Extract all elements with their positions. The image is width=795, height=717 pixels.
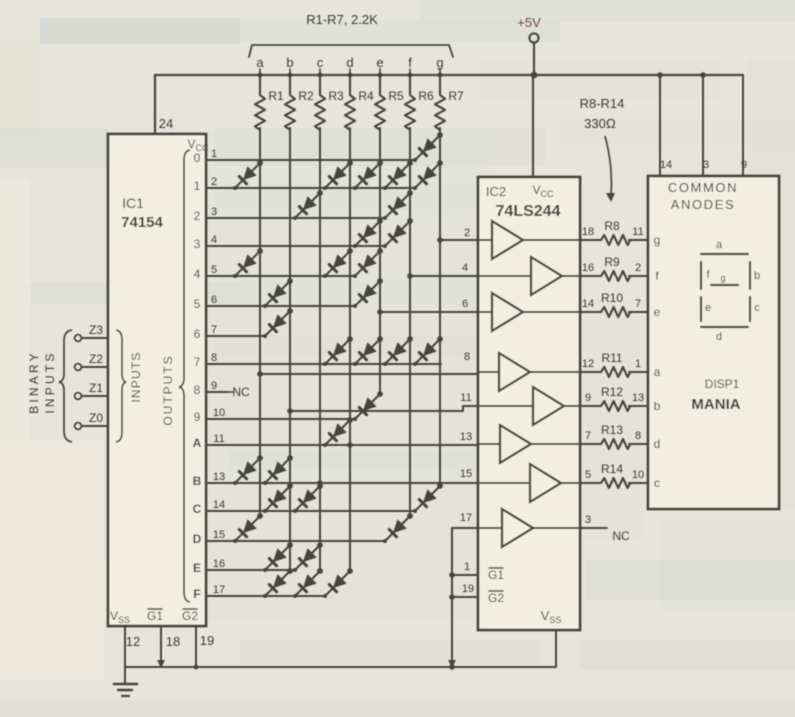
wire buffer 1 input stub xyxy=(478,239,492,241)
svg-text:8: 8 xyxy=(464,351,470,363)
svg-text:6: 6 xyxy=(462,298,468,310)
wire pin 18 xyxy=(160,626,162,663)
svg-text:7: 7 xyxy=(635,298,641,310)
svg-text:8: 8 xyxy=(635,430,641,442)
resistor R7 xyxy=(435,75,445,130)
svg-text:14: 14 xyxy=(213,499,225,511)
svg-text:1: 1 xyxy=(194,179,201,193)
svg-text:R13: R13 xyxy=(601,423,623,437)
diode D row9 seg e xyxy=(353,391,383,421)
diode D row5 seg b xyxy=(263,278,293,308)
svg-text:4: 4 xyxy=(211,234,217,246)
svg-text:IC2: IC2 xyxy=(486,184,506,199)
wire buffer 5 input stub xyxy=(478,405,533,407)
svg-text:R3: R3 xyxy=(328,89,344,103)
svg-text:R8-R14: R8-R14 xyxy=(580,96,625,111)
svg-text:R12: R12 xyxy=(601,385,623,399)
diode D row6 seg b xyxy=(263,308,293,338)
svg-text:g: g xyxy=(436,55,443,70)
resistor R5 xyxy=(375,75,385,130)
svg-text:0: 0 xyxy=(194,151,201,165)
svg-text:74LS244: 74LS244 xyxy=(496,203,561,220)
wire ground bus xyxy=(125,666,556,668)
svg-text:4: 4 xyxy=(194,267,201,281)
wire buffer 8 output NC xyxy=(533,527,607,529)
resistor R1 xyxy=(255,75,265,130)
svg-text:19: 19 xyxy=(200,633,214,648)
svg-text:2: 2 xyxy=(464,227,470,239)
wire IC1 pin 6 row xyxy=(206,305,355,307)
svg-text:R14: R14 xyxy=(601,462,623,476)
svg-text:Z1: Z1 xyxy=(89,381,103,395)
IC1 inputs brace inner xyxy=(116,330,126,442)
svg-text:NC: NC xyxy=(232,385,250,399)
wire buffer 6 output xyxy=(531,443,601,445)
resistor R9 xyxy=(601,271,630,281)
diode D row0 seg g xyxy=(413,132,443,162)
svg-text:R7: R7 xyxy=(448,89,464,103)
svg-text:8: 8 xyxy=(194,383,201,397)
wire R11 to display pin 1 xyxy=(629,371,648,373)
svg-text:B: B xyxy=(193,474,202,488)
svg-text:e: e xyxy=(376,55,383,70)
diode D row7 seg g xyxy=(413,336,443,366)
resistor R2 xyxy=(285,75,295,130)
wire R13 to display pin 8 xyxy=(629,443,648,445)
buffer U2b xyxy=(531,257,562,295)
diode D row1 seg d xyxy=(323,160,353,190)
display DISP1 box xyxy=(648,176,779,509)
wire buffer 3 input stub xyxy=(478,311,492,313)
diode D row4 seg a xyxy=(233,248,263,278)
svg-text:1: 1 xyxy=(635,358,641,370)
diode D rowC seg c xyxy=(293,483,323,513)
svg-text:19: 19 xyxy=(462,583,474,595)
svg-text:11: 11 xyxy=(460,392,471,404)
node input Z2 xyxy=(75,364,82,371)
svg-text:G1: G1 xyxy=(488,568,504,582)
diode D row2 seg c xyxy=(293,190,323,220)
arrow to R8 xyxy=(605,136,611,196)
wire buffer 3 output xyxy=(523,311,601,313)
svg-text:14: 14 xyxy=(582,298,594,310)
svg-text:15: 15 xyxy=(460,468,472,480)
IC2 74LS244 box xyxy=(478,177,580,630)
diode D row5 seg e xyxy=(353,278,383,308)
wire buffer 6 input stub xyxy=(478,443,500,445)
svg-text:5: 5 xyxy=(211,264,217,276)
svg-text:6: 6 xyxy=(194,327,201,341)
svg-text:8: 8 xyxy=(211,352,217,364)
svg-text:d: d xyxy=(654,437,661,451)
wire IC1 pin 16 row xyxy=(206,569,295,571)
diode D row1 seg g xyxy=(413,160,443,190)
wire pin 19 xyxy=(195,626,197,667)
svg-text:9: 9 xyxy=(211,380,217,392)
buffer U2e xyxy=(533,387,564,425)
svg-text:f: f xyxy=(408,55,412,70)
diode D rowD seg f xyxy=(383,513,413,543)
wire G2 pin 19 xyxy=(452,596,478,598)
wire IC2 Vss to ground bus xyxy=(555,630,557,667)
svg-text:A: A xyxy=(193,436,202,450)
diode D rowF seg b xyxy=(263,568,293,598)
wire column d xyxy=(349,128,351,571)
svg-text:R4: R4 xyxy=(358,89,374,103)
wire col c tap in15 xyxy=(317,480,323,486)
svg-text:G1: G1 xyxy=(147,609,163,623)
diode D row1 seg e xyxy=(353,160,383,190)
svg-text:F: F xyxy=(193,587,200,601)
diode D rowB seg a xyxy=(233,455,263,485)
svg-text:10: 10 xyxy=(213,407,225,419)
wire R12 to display pin 13 xyxy=(629,405,648,407)
diode D rowE seg b xyxy=(263,542,293,572)
svg-text:c: c xyxy=(654,476,660,490)
svg-text:COMMON: COMMON xyxy=(668,180,738,195)
diode D rowA seg d xyxy=(323,417,353,447)
wire buffer 5 output xyxy=(564,405,601,407)
diode D rowD seg a xyxy=(233,513,263,543)
diode D rowC seg g xyxy=(413,483,443,513)
svg-text:INPUTS: INPUTS xyxy=(129,351,143,402)
wire column c xyxy=(319,128,321,571)
buffer U2h xyxy=(502,509,533,547)
svg-text:d: d xyxy=(346,55,353,70)
resistor R8 xyxy=(601,235,630,245)
svg-text:7: 7 xyxy=(194,355,201,369)
svg-text:G2: G2 xyxy=(182,609,198,623)
svg-text:1: 1 xyxy=(211,148,217,160)
svg-text:c: c xyxy=(754,302,760,314)
svg-text:g: g xyxy=(654,233,661,247)
wire column e xyxy=(379,128,381,394)
diode D row7 seg d xyxy=(323,336,353,366)
wire col d tap in13 xyxy=(347,442,353,448)
wire IC1 pin 17 row xyxy=(206,595,325,597)
svg-text:9: 9 xyxy=(585,392,591,404)
wire bus drop to IC1 pin 24 xyxy=(154,75,156,134)
node input Z0 xyxy=(75,423,82,430)
diode D row3 seg e xyxy=(353,218,383,248)
wire buffer 2 output xyxy=(562,275,601,277)
resistor R14 xyxy=(601,478,630,488)
wire IC1 pin 11 row xyxy=(206,444,500,446)
svg-text:R5: R5 xyxy=(388,89,404,103)
wire column b xyxy=(289,128,291,571)
svg-text:2: 2 xyxy=(211,176,217,188)
svg-text:ANODES: ANODES xyxy=(671,197,736,212)
wire col e to IC2 in6 xyxy=(380,311,492,313)
svg-text:R11: R11 xyxy=(601,351,622,365)
resistor R4 xyxy=(345,75,355,130)
diode D rowF seg d xyxy=(323,568,353,598)
resistor R10 xyxy=(601,307,630,317)
diode D rowF seg c xyxy=(293,568,323,598)
svg-text:11: 11 xyxy=(213,433,224,445)
svg-text:4: 4 xyxy=(462,262,468,274)
svg-text:17: 17 xyxy=(213,584,225,596)
svg-text:d: d xyxy=(716,331,722,343)
svg-text:b: b xyxy=(754,270,760,282)
wire +5V to IC2 Vcc xyxy=(532,75,534,177)
svg-text:G2: G2 xyxy=(488,591,504,605)
wire col f to IC2 in4 xyxy=(410,275,531,277)
wire IC1 pin 3 row xyxy=(206,217,385,219)
wire column a xyxy=(259,128,261,516)
svg-text:a: a xyxy=(716,239,723,251)
resistor R3 xyxy=(315,75,325,130)
wire buffer 4 input stub xyxy=(478,371,499,373)
svg-text:16: 16 xyxy=(213,558,225,570)
wire col a to IC2 in8 xyxy=(260,373,499,375)
diode D rowC seg b xyxy=(263,483,293,513)
svg-text:330Ω: 330Ω xyxy=(584,116,616,131)
svg-text:g: g xyxy=(720,273,725,283)
wire buffer 7 input stub xyxy=(478,482,530,484)
wire G1 pin 1 xyxy=(452,574,478,576)
wire col g to IC2 in2 xyxy=(440,239,492,241)
svg-text:5: 5 xyxy=(194,297,201,311)
wire buffer 7 output xyxy=(561,482,601,484)
svg-text:Z0: Z0 xyxy=(89,411,103,425)
svg-text:E: E xyxy=(193,561,201,575)
resistor R12 xyxy=(601,401,630,411)
svg-text:+5V: +5V xyxy=(517,15,541,30)
wire G tie vertical xyxy=(451,528,453,667)
svg-text:b: b xyxy=(286,55,293,70)
svg-text:17: 17 xyxy=(460,512,472,524)
wire col b to IC2 in11 xyxy=(290,406,533,411)
svg-text:3: 3 xyxy=(211,206,217,218)
svg-text:13: 13 xyxy=(213,471,225,483)
diode D rowE seg c xyxy=(293,542,323,572)
wire IC1 pin 9 row xyxy=(206,391,228,393)
resistor R13 xyxy=(601,439,630,449)
diode D row4 seg e xyxy=(353,248,383,278)
wire anode pin 9 xyxy=(742,75,744,176)
buffer U2a xyxy=(492,221,523,259)
svg-text:18: 18 xyxy=(582,226,594,238)
wire IC1 pin 10 row xyxy=(206,418,355,420)
wire buffer 2 input stub xyxy=(478,275,531,277)
svg-text:24: 24 xyxy=(159,116,173,131)
buffer U2g xyxy=(530,464,561,502)
IC1 74154 box xyxy=(108,134,206,626)
svg-text:74154: 74154 xyxy=(121,214,163,231)
diode D row7 seg f xyxy=(383,336,413,366)
svg-text:18: 18 xyxy=(166,634,180,649)
svg-text:DISP1: DISP1 xyxy=(705,377,740,391)
svg-text:3: 3 xyxy=(703,159,709,171)
svg-text:12: 12 xyxy=(582,358,594,370)
IC1 outputs brace xyxy=(179,150,190,602)
svg-text:e: e xyxy=(705,302,711,314)
svg-text:6: 6 xyxy=(211,294,217,306)
wire buffer 4 output xyxy=(530,371,601,373)
svg-text:3: 3 xyxy=(194,237,201,251)
wire IC1 pin 2 row xyxy=(206,187,415,189)
svg-text:D: D xyxy=(193,532,202,546)
wire R10 to display pin 7 xyxy=(629,311,648,313)
wire buffer 8 input stub xyxy=(478,527,502,529)
svg-text:7: 7 xyxy=(585,430,591,442)
svg-text:a: a xyxy=(654,365,661,379)
wire IC1 pin 5 row xyxy=(206,275,355,277)
wire IC1 pin 14 row xyxy=(206,510,415,512)
svg-text:1: 1 xyxy=(464,561,470,573)
diode D row3 seg f xyxy=(383,218,413,248)
wire IC1 pin 7 row xyxy=(206,335,265,337)
svg-text:9: 9 xyxy=(741,159,747,171)
svg-text:11: 11 xyxy=(632,226,643,238)
svg-text:13: 13 xyxy=(632,392,644,404)
svg-text:15: 15 xyxy=(213,529,225,541)
ground xyxy=(124,667,126,684)
wire IC2 in17 xyxy=(452,527,502,529)
svg-text:R9: R9 xyxy=(604,255,620,269)
svg-text:9: 9 xyxy=(194,410,201,424)
svg-text:10: 10 xyxy=(632,469,644,481)
svg-text:R1-R7, 2.2K: R1-R7, 2.2K xyxy=(306,12,378,27)
svg-text:Z2: Z2 xyxy=(89,352,103,366)
wire R9 to display pin 2 xyxy=(629,275,648,277)
svg-text:OUTPUTS: OUTPUTS xyxy=(161,354,175,425)
diode D rowB seg b xyxy=(263,455,293,485)
svg-text:e: e xyxy=(654,305,661,319)
svg-text:c: c xyxy=(317,55,324,70)
resistor R11 xyxy=(601,367,630,377)
svg-text:7: 7 xyxy=(211,324,217,336)
buffer U2c xyxy=(492,293,523,331)
buffer U2f xyxy=(500,425,531,463)
wire column g xyxy=(439,128,441,486)
wire +5V top bus xyxy=(155,74,743,76)
svg-text:3: 3 xyxy=(585,514,591,526)
svg-text:a: a xyxy=(256,55,264,70)
wire R14 to display pin 10 xyxy=(629,482,648,484)
svg-text:R8: R8 xyxy=(604,219,620,233)
svg-text:2: 2 xyxy=(635,262,641,274)
diode D row7 seg e xyxy=(353,336,383,366)
wire buffer 1 output xyxy=(523,239,601,241)
diode D row4 seg d xyxy=(323,248,353,278)
svg-text:12: 12 xyxy=(126,634,140,649)
resistor R6 xyxy=(405,75,415,130)
buffer U2d xyxy=(499,353,530,391)
svg-text:13: 13 xyxy=(460,431,472,443)
wire anode pin 3 xyxy=(702,75,704,176)
wire column f xyxy=(409,128,411,516)
diode D row1 seg a xyxy=(233,160,263,190)
svg-text:MANIA: MANIA xyxy=(691,396,740,413)
node input Z1 xyxy=(75,393,82,400)
wire IC1 pin 15 row xyxy=(206,540,385,542)
wire anode pin 14 xyxy=(659,75,661,176)
svg-text:14: 14 xyxy=(660,159,672,171)
wire IC1 pin 4 row xyxy=(206,245,385,247)
svg-text:INPUTS: INPUTS xyxy=(43,350,57,413)
svg-text:b: b xyxy=(654,399,661,413)
diode D row1 seg f xyxy=(383,160,413,190)
svg-text:C: C xyxy=(193,502,202,516)
svg-text:2: 2 xyxy=(194,209,201,223)
svg-text:R10: R10 xyxy=(601,291,623,305)
wire R8 to display pin 11 xyxy=(629,239,648,241)
binary inputs brace outer xyxy=(59,330,72,442)
7-segment glyph xyxy=(701,239,760,343)
svg-text:Z3: Z3 xyxy=(89,323,103,337)
node input Z3 xyxy=(75,335,82,342)
svg-text:R2: R2 xyxy=(298,89,314,103)
diode D row2 seg f xyxy=(383,190,413,220)
svg-text:R1: R1 xyxy=(268,89,284,103)
svg-text:5: 5 xyxy=(585,469,591,481)
svg-text:R6: R6 xyxy=(418,89,434,103)
wire IC1 pin 13 row xyxy=(206,482,530,484)
svg-text:BINARY: BINARY xyxy=(27,350,41,414)
svg-text:16: 16 xyxy=(582,262,594,274)
svg-text:IC1: IC1 xyxy=(122,195,144,211)
wire pin 12 xyxy=(124,626,126,667)
wire IC1 pin 1 row xyxy=(206,159,415,161)
svg-text:NC: NC xyxy=(612,529,630,543)
wire IC1 pin 8 row xyxy=(206,363,441,365)
